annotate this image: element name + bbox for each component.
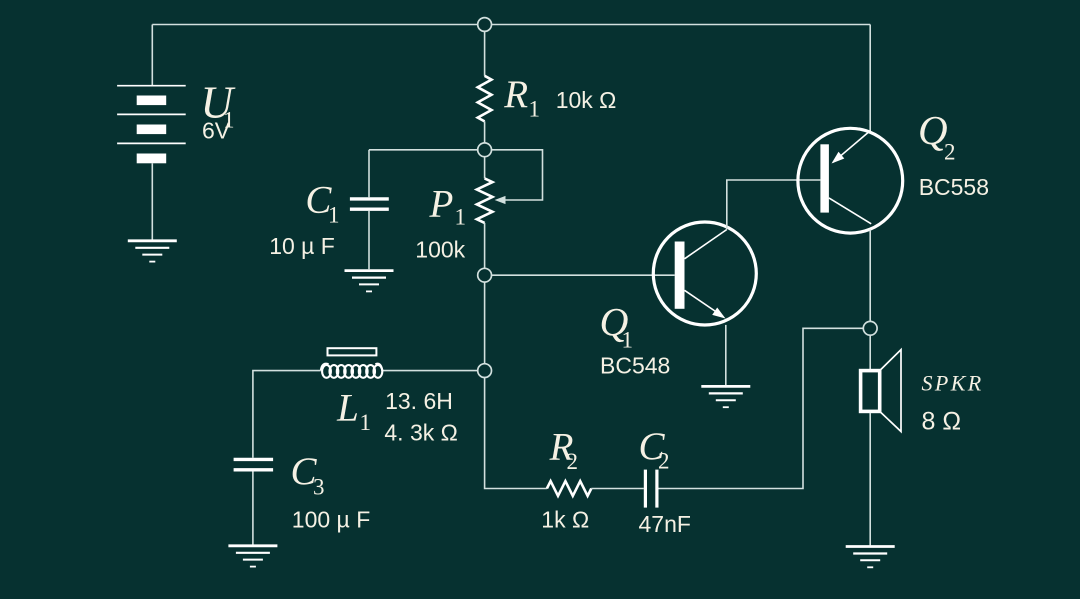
transistor Q1 circle: [653, 222, 756, 325]
wire L1 to C3: [253, 371, 321, 458]
wire node C to Q1 base: [492, 274, 675, 276]
battery U1: [117, 86, 186, 164]
svg-text:L: L: [336, 387, 359, 430]
wire C2 to node E: [659, 328, 864, 488]
svg-text:4. 3k Ω: 4. 3k Ω: [384, 420, 457, 446]
svg-text:1k Ω: 1k Ω: [541, 507, 589, 533]
capacitor C1: [350, 199, 389, 209]
speaker SPKR horn: [880, 350, 901, 432]
transistor Q2 base bar: [820, 144, 829, 212]
svg-text:BC548: BC548: [600, 353, 670, 379]
wire node E to speaker: [869, 335, 871, 369]
ground (speaker): [846, 547, 895, 568]
svg-text:10 µ F: 10 µ F: [269, 233, 335, 259]
speaker SPKR rect: [861, 371, 880, 412]
svg-text:1: 1: [328, 202, 340, 227]
wire top rail to Q2: [869, 25, 871, 132]
wire node D to L1: [382, 370, 478, 372]
node B: [478, 143, 492, 157]
wire Q2 collector down: [869, 230, 871, 322]
capacitor C2: [645, 470, 657, 508]
svg-text:BC558: BC558: [919, 174, 989, 200]
svg-text:R: R: [503, 73, 528, 116]
ground (C1): [345, 271, 394, 292]
svg-text:1: 1: [529, 96, 541, 121]
node D: [478, 364, 492, 378]
wire speaker to ground: [869, 413, 871, 546]
resistor R1: [478, 76, 492, 122]
wire R1 bottom: [484, 121, 486, 142]
svg-text:6V: 6V: [202, 118, 231, 144]
svg-text:2: 2: [567, 449, 579, 474]
svg-text:47nF: 47nF: [639, 511, 691, 537]
svg-text:100k: 100k: [415, 236, 465, 262]
inductor L1 core bar: [328, 348, 377, 355]
wire node D down to bottom: [485, 378, 547, 489]
capacitor C3: [234, 459, 274, 469]
node E: [863, 321, 877, 335]
svg-text:8 Ω: 8 Ω: [922, 408, 962, 436]
wire C3 bottom: [252, 472, 254, 546]
svg-text:1: 1: [360, 410, 372, 435]
svg-text:1: 1: [455, 205, 467, 230]
svg-text:13. 6H: 13. 6H: [385, 388, 453, 414]
wire C1 bottom: [368, 211, 370, 269]
wire top rail: [152, 24, 870, 26]
svg-text:SPKR: SPKR: [922, 370, 984, 395]
wire R1 top: [484, 32, 486, 76]
transistor Q2 collector line: [829, 198, 871, 224]
wire Q1 emitter to ground: [725, 325, 727, 385]
wire R2 to C2: [591, 488, 644, 490]
ground (Q1): [701, 386, 750, 407]
wire C1 top: [368, 150, 370, 197]
svg-text:P: P: [429, 183, 454, 226]
node C: [478, 268, 492, 282]
ground (C3): [228, 546, 277, 567]
svg-text:100 µ F: 100 µ F: [292, 506, 370, 532]
wire P1 bottom: [484, 223, 486, 268]
svg-text:2: 2: [944, 140, 956, 165]
inductor L1 coil: [321, 364, 383, 378]
transistor Q2 circle: [798, 128, 903, 233]
wire battery top: [151, 25, 153, 86]
potentiometer P1: [477, 178, 493, 223]
wire P1 top: [484, 157, 486, 179]
svg-text:3: 3: [313, 475, 325, 500]
wire battery to ground: [151, 163, 153, 241]
ground (battery): [128, 241, 177, 262]
Q1 emitter arrow: [712, 308, 725, 319]
wire Q1 collector to Q2 base: [727, 180, 821, 229]
svg-text:2: 2: [658, 449, 670, 474]
svg-text:10k Ω: 10k Ω: [556, 87, 617, 113]
transistor Q1 collector line: [685, 230, 727, 259]
svg-text:1: 1: [622, 328, 634, 353]
resistor R2: [547, 481, 591, 496]
transistor Q1 emitter line: [685, 290, 724, 316]
transistor Q2 emitter line: [833, 131, 871, 163]
wire node C down: [484, 282, 486, 363]
wire P1 wiper loop: [492, 150, 543, 200]
wire node B to C1: [369, 149, 478, 151]
Q2 emitter arrow: [832, 152, 845, 164]
wiper arrow: [495, 196, 506, 204]
transistor Q1 base bar: [675, 242, 685, 309]
node A: [478, 18, 492, 32]
